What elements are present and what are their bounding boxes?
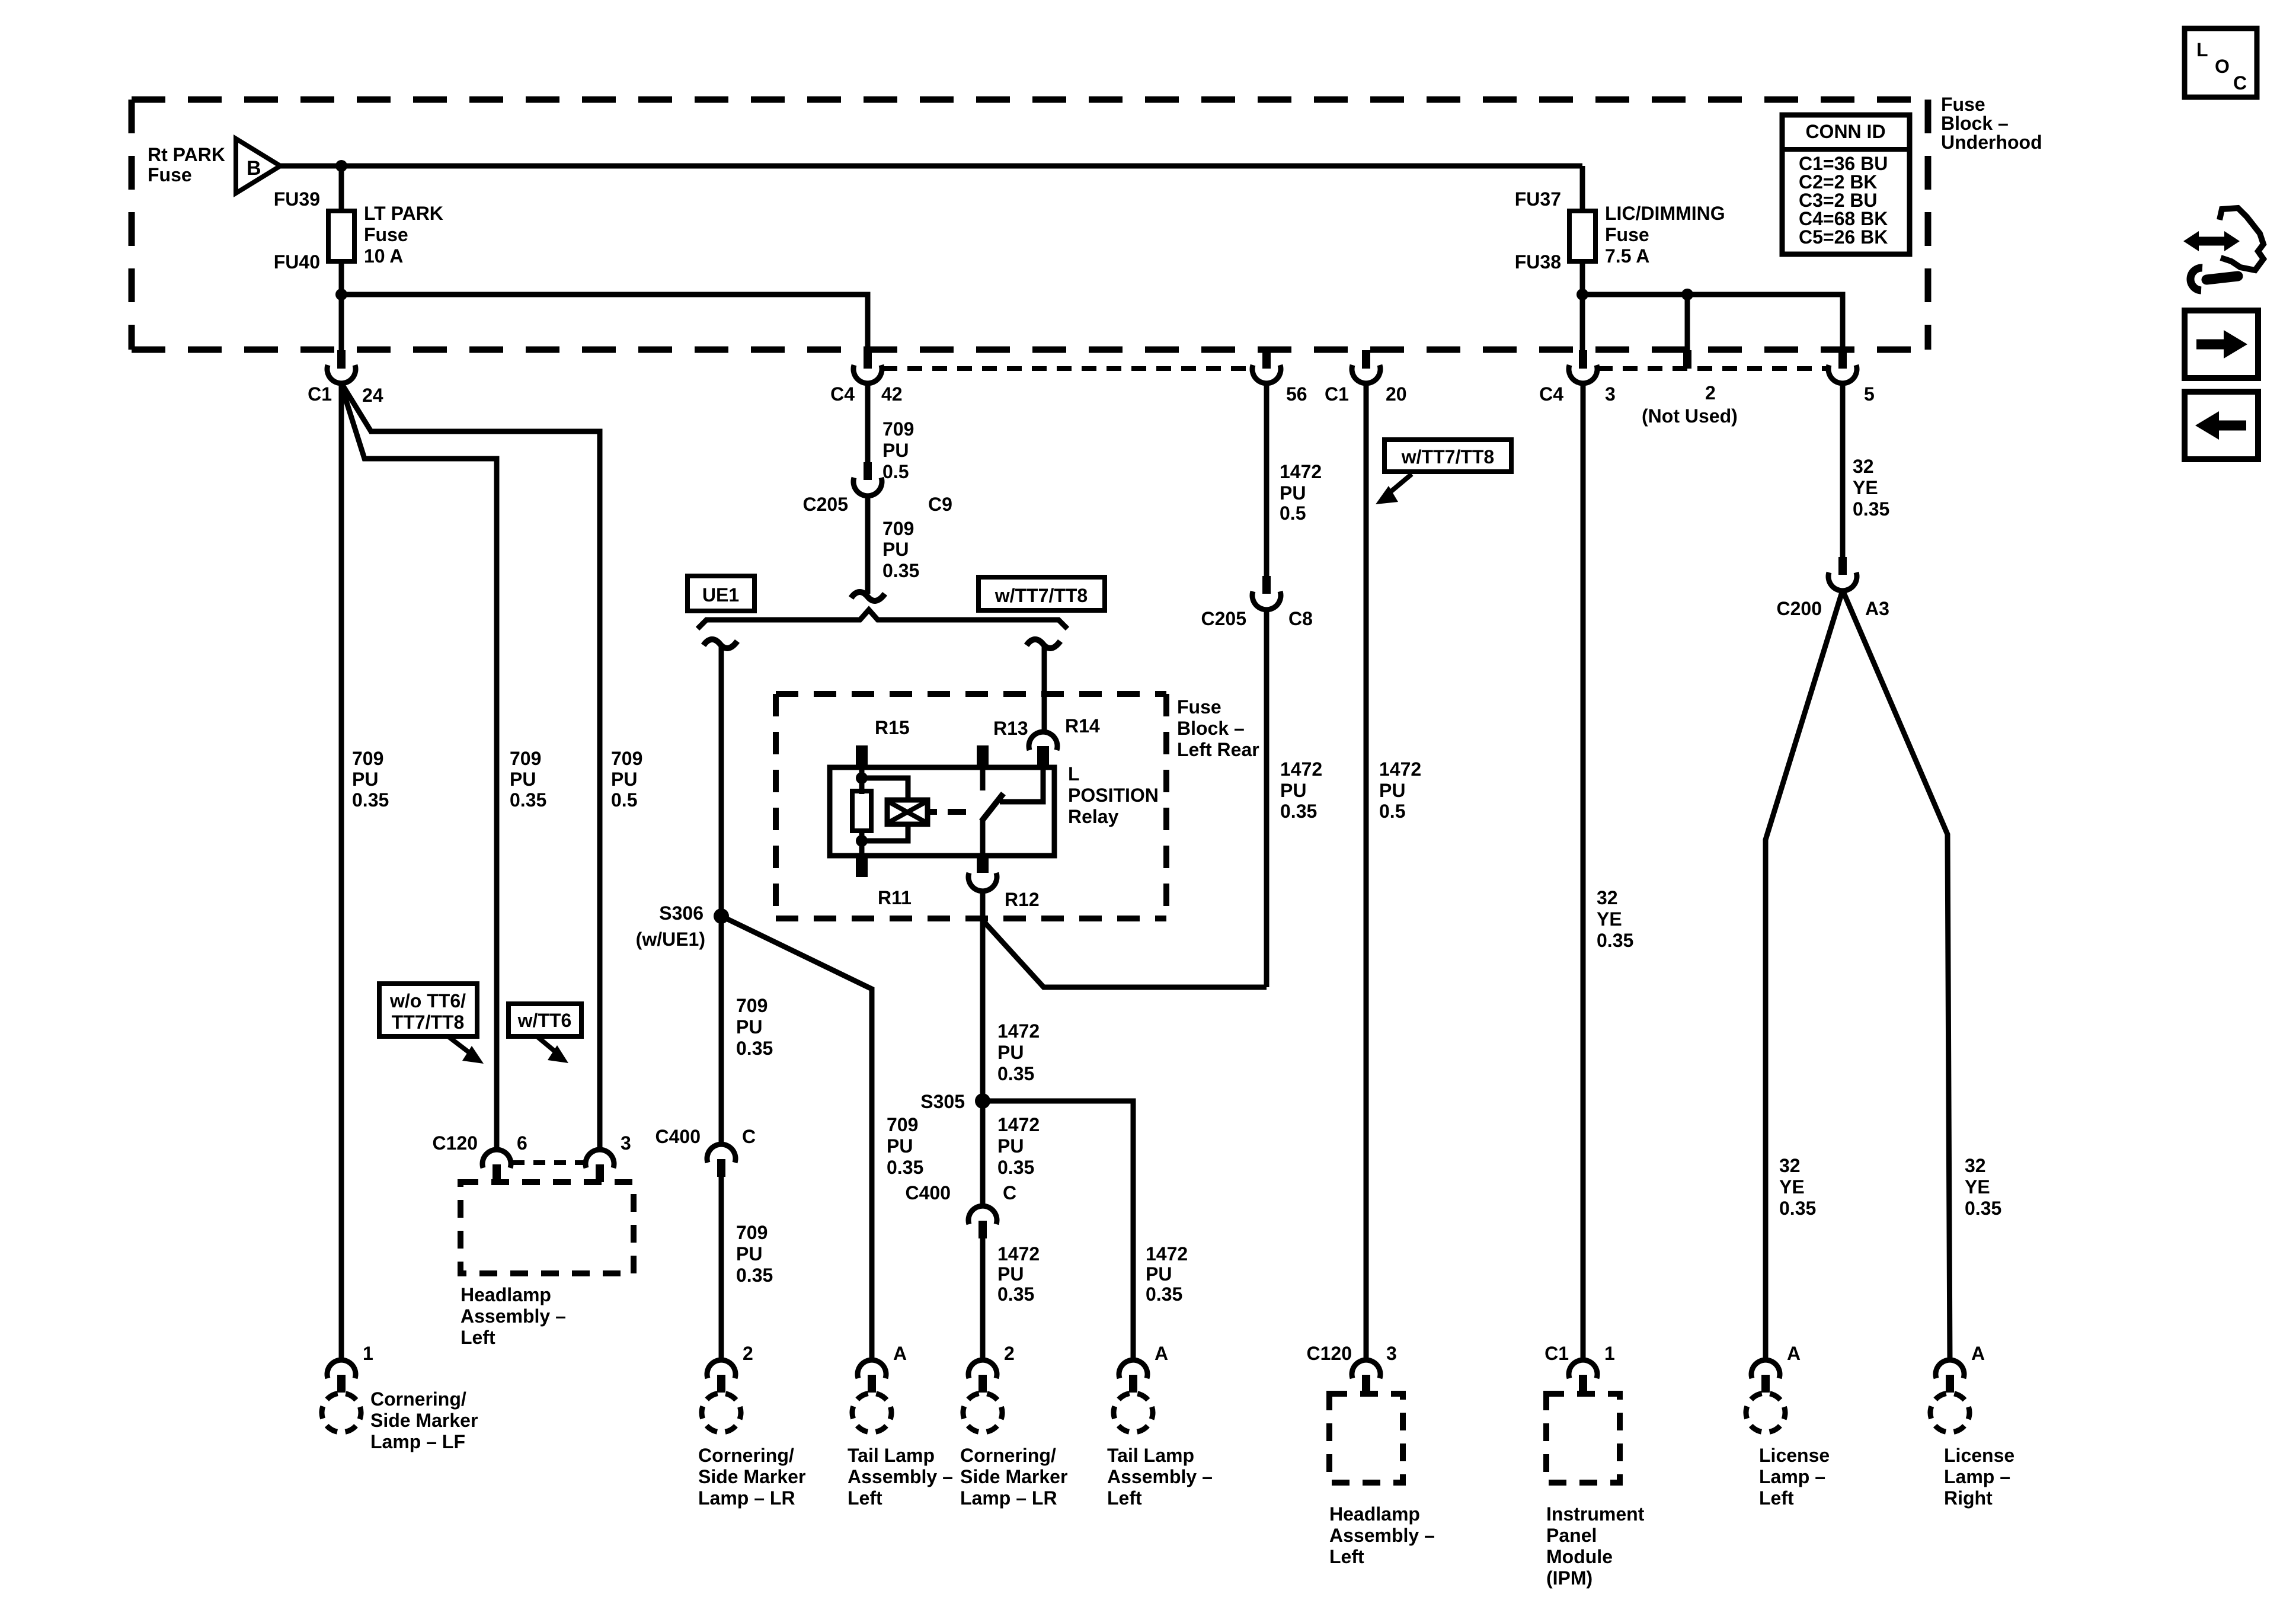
svg-text:2: 2 <box>1004 1343 1015 1364</box>
wire label 709 PU 0.5 (pin42) <box>882 418 914 482</box>
svg-text:7.5 A: 7.5 A <box>1605 245 1649 267</box>
relay body L POSITION Relay <box>830 767 1054 856</box>
svg-text:(IPM): (IPM) <box>1546 1567 1593 1589</box>
svg-text:32: 32 <box>1597 887 1618 908</box>
svg-text:A: A <box>893 1343 907 1364</box>
option box w/o TT6/TT7/TT8 <box>379 984 477 1036</box>
svg-text:Module: Module <box>1546 1546 1613 1567</box>
relay coil loop wires <box>862 778 908 801</box>
svg-text:O: O <box>2215 56 2230 77</box>
arrow from w/TT6 box <box>537 1036 568 1063</box>
svg-text:0.35: 0.35 <box>352 789 389 811</box>
svg-text:C205: C205 <box>1201 608 1247 629</box>
option box UE1 <box>687 576 754 611</box>
svg-text:Left: Left <box>1107 1487 1142 1509</box>
connector C4 pin 5 <box>1828 350 1857 383</box>
svg-text:709: 709 <box>882 418 914 440</box>
svg-text:S305: S305 <box>920 1091 965 1112</box>
svg-text:R14: R14 <box>1065 715 1100 737</box>
svg-text:Rt PARK: Rt PARK <box>148 144 225 165</box>
label C205 C8 <box>1201 608 1313 629</box>
svg-text:56: 56 <box>1286 383 1307 405</box>
svg-text:709: 709 <box>611 748 642 769</box>
connector pin 2 Cornering LR front <box>707 1360 736 1393</box>
connector C205 C9 <box>853 462 882 496</box>
lamp circle Cornering LR rear <box>955 1385 1010 1440</box>
svg-text:3: 3 <box>1386 1343 1397 1364</box>
svg-text:w/TT6: w/TT6 <box>517 1010 572 1031</box>
svg-text:Left: Left <box>1329 1546 1364 1567</box>
relay coil junction bottom <box>856 835 868 847</box>
svg-text:R11: R11 <box>878 887 912 908</box>
connector C120 pin 6 <box>482 1150 511 1182</box>
connector C120 pin 3 <box>586 1150 614 1182</box>
svg-text:Cornering/: Cornering/ <box>698 1445 794 1466</box>
svg-text:Left Rear: Left Rear <box>1177 739 1259 760</box>
connector pin A License Right <box>1936 1360 1964 1393</box>
svg-text:FU39: FU39 <box>274 188 320 210</box>
label C4 3 <box>1539 383 1616 405</box>
svg-text:(Not Used): (Not Used) <box>1642 405 1738 427</box>
wire C9 down to break <box>865 496 871 594</box>
svg-text:Side Marker: Side Marker <box>370 1410 478 1431</box>
junction node pin2 branch <box>1681 289 1693 300</box>
svg-text:Cornering/: Cornering/ <box>370 1388 466 1410</box>
svg-text:A: A <box>1971 1343 1985 1364</box>
svg-text:UE1: UE1 <box>702 584 739 606</box>
svg-text:A: A <box>1787 1343 1801 1364</box>
svg-text:Fuse: Fuse <box>1177 696 1221 718</box>
svg-text:0.5: 0.5 <box>882 461 909 482</box>
svg-text:Lamp – LR: Lamp – LR <box>698 1487 795 1509</box>
svg-text:PU: PU <box>736 1016 762 1038</box>
svg-text:PU: PU <box>997 1263 1024 1285</box>
relay resistor lower wire <box>859 831 865 856</box>
wire FU38 to pin 5 <box>1582 295 1843 350</box>
svg-text:0.5: 0.5 <box>1280 502 1306 524</box>
svg-text:PU: PU <box>352 769 378 790</box>
svg-text:LT PARK: LT PARK <box>364 203 443 224</box>
junction node FU38 <box>1576 289 1588 300</box>
svg-text:FU40: FU40 <box>274 251 320 273</box>
wire R12 branch to C8 wire <box>983 920 1267 987</box>
svg-text:1472: 1472 <box>997 1114 1040 1135</box>
svg-text:Lamp –: Lamp – <box>1759 1466 1825 1487</box>
svg-text:Headlamp: Headlamp <box>461 1284 551 1305</box>
relay pin R13 <box>977 745 989 767</box>
svg-text:C4: C4 <box>1539 383 1563 405</box>
svg-text:License: License <box>1944 1445 2014 1466</box>
svg-text:PU: PU <box>882 440 909 461</box>
svg-text:1472: 1472 <box>1379 758 1421 780</box>
svg-text:1: 1 <box>1604 1343 1615 1364</box>
wire bus down to FU37 <box>1580 166 1585 211</box>
wire label 1472 PU 0.35 (C8) <box>1280 758 1322 822</box>
svg-text:0.35: 0.35 <box>1779 1198 1816 1219</box>
wire label 709 PU 0.35 (C400-lamp LR) <box>736 1222 773 1286</box>
svg-text:Left: Left <box>1759 1487 1794 1509</box>
wire pin20 down to C120-3 <box>1364 383 1369 1361</box>
svg-text:Lamp – LF: Lamp – LF <box>370 1431 465 1452</box>
svg-text:0.5: 0.5 <box>611 789 637 811</box>
svg-text:C: C <box>1003 1182 1016 1204</box>
connector C400 C (rear) <box>968 1206 997 1238</box>
relay coil box <box>887 800 928 824</box>
svg-text:Instrument: Instrument <box>1546 1503 1645 1525</box>
label LIC/DIMMING Fuse 7.5A <box>1605 203 1725 267</box>
label Instrument Panel Module IPM <box>1546 1503 1645 1589</box>
svg-text:Fuse: Fuse <box>364 224 408 245</box>
label Fuse Block - Left Rear <box>1177 696 1259 760</box>
connector C4 pin 42 <box>853 350 882 383</box>
wire A3 split to license left <box>1766 590 1843 1361</box>
svg-text:0.35: 0.35 <box>1965 1198 2001 1219</box>
svg-text:w/o TT6/: w/o TT6/ <box>389 990 466 1012</box>
svg-text:C1: C1 <box>1325 383 1349 405</box>
wire pin3 down to IPM <box>1581 383 1586 1361</box>
label License Lamp Left <box>1759 1445 1830 1509</box>
svg-text:32: 32 <box>1779 1155 1801 1176</box>
svg-text:C1: C1 <box>308 383 332 405</box>
connector pin 2 not used <box>1683 350 1691 369</box>
service icon arrows and wrench <box>2183 208 2263 290</box>
wire triangle B to FU37 <box>280 164 1582 169</box>
svg-text:Tail Lamp: Tail Lamp <box>1107 1445 1194 1466</box>
wire pin56 to C205-C8 <box>1264 383 1269 576</box>
svg-text:C: C <box>742 1126 756 1147</box>
svg-text:L: L <box>2196 39 2208 60</box>
connector pin 2 Cornering LR rear <box>968 1360 997 1393</box>
wire fuse FU40 down <box>339 261 344 350</box>
svg-text:Left: Left <box>461 1327 495 1348</box>
svg-text:C400: C400 <box>655 1126 701 1147</box>
svg-text:Panel: Panel <box>1546 1525 1597 1546</box>
connector C1 pin 1 bottom <box>1569 1360 1597 1393</box>
svg-text:42: 42 <box>881 383 903 405</box>
svg-text:Fuse: Fuse <box>148 164 192 185</box>
svg-text:0.35: 0.35 <box>1146 1283 1182 1305</box>
svg-text:C8: C8 <box>1288 608 1313 629</box>
wire label 709 PU 0.35 (pin6) <box>510 748 546 811</box>
label Cornering Side Marker Lamp LF <box>370 1388 478 1452</box>
svg-text:6: 6 <box>517 1132 527 1154</box>
wire label 709 PU 0.5 (pin3) <box>611 748 642 811</box>
fuse block underhood dashed enclosure <box>132 100 1928 350</box>
svg-text:R13: R13 <box>993 718 1028 739</box>
svg-text:2: 2 <box>1705 382 1716 404</box>
relay switch R14 link <box>1000 767 1043 802</box>
relay pin R12 with connector <box>968 856 997 891</box>
wire to pin 2 not used <box>1685 295 1690 350</box>
svg-text:24: 24 <box>362 385 383 406</box>
svg-text:w/TT7/TT8: w/TT7/TT8 <box>1401 446 1494 468</box>
relay coil feed wire <box>859 767 865 794</box>
svg-text:LIC/DIMMING: LIC/DIMMING <box>1605 203 1725 224</box>
svg-text:A3: A3 <box>1865 598 1889 619</box>
svg-text:Fuse: Fuse <box>1605 224 1649 245</box>
svg-text:C205: C205 <box>803 494 849 515</box>
svg-text:Lamp – LR: Lamp – LR <box>960 1487 1057 1509</box>
svg-text:709: 709 <box>882 518 914 539</box>
label Tail Lamp Assembly Left (1) <box>848 1445 953 1509</box>
svg-text:10 A: 10 A <box>364 245 403 267</box>
svg-text:R15: R15 <box>875 717 910 738</box>
svg-text:CONN ID: CONN ID <box>1805 121 1885 142</box>
svg-text:Underhood: Underhood <box>1941 132 2042 153</box>
wire label 1472 PU 0.35 (S305-C400) <box>997 1114 1040 1178</box>
svg-text:0.35: 0.35 <box>1280 801 1317 822</box>
svg-text:709: 709 <box>736 1222 768 1243</box>
LOC icon box <box>2185 28 2257 97</box>
wire fanout to pin3 branch <box>343 385 600 1150</box>
svg-text:YE: YE <box>1853 477 1878 498</box>
svg-text:5: 5 <box>1864 383 1875 405</box>
svg-text:1: 1 <box>363 1343 373 1364</box>
svg-text:S306: S306 <box>659 902 703 924</box>
relay pin R11 <box>856 856 868 877</box>
svg-text:Relay: Relay <box>1068 806 1119 827</box>
brace option split <box>698 610 1067 629</box>
svg-text:Right: Right <box>1944 1487 1993 1509</box>
svg-text:Tail Lamp: Tail Lamp <box>848 1445 935 1466</box>
relay switch to R12 <box>980 820 986 856</box>
label License Lamp Right <box>1944 1445 2014 1509</box>
connector C120 pin 3 bottom <box>1352 1360 1380 1393</box>
svg-text:0.35: 0.35 <box>736 1038 773 1059</box>
label C200 A3 <box>1777 598 1889 619</box>
label C1 24 <box>308 383 383 406</box>
svg-text:1472: 1472 <box>1146 1243 1188 1265</box>
icon box arrow right <box>2185 311 2258 378</box>
connector C200 A3 <box>1828 557 1857 591</box>
label Rt PARK Fuse <box>148 144 225 185</box>
wire C400 front to lamp <box>719 1177 724 1361</box>
label Fuse Block - Underhood <box>1941 94 2042 153</box>
svg-text:Assembly –: Assembly – <box>848 1466 953 1487</box>
svg-text:POSITION: POSITION <box>1068 785 1159 806</box>
wire label 709 PU 0.35 (S306-C400) <box>736 995 773 1059</box>
option box w/TT7/TT8 pointer <box>1384 440 1511 472</box>
dashed link C120 row <box>513 1160 584 1165</box>
svg-text:3: 3 <box>621 1132 631 1154</box>
svg-text:0.5: 0.5 <box>1379 801 1405 822</box>
connector row dashed line <box>882 366 1828 371</box>
lamp circle License Left <box>1738 1385 1793 1440</box>
svg-text:0.35: 0.35 <box>510 789 546 811</box>
svg-text:PU: PU <box>997 1042 1024 1063</box>
wire pin24 down to lamp LF <box>339 383 344 1361</box>
wire R12 down to S305 <box>980 890 986 1206</box>
svg-text:Headlamp: Headlamp <box>1329 1503 1420 1525</box>
wire pin42 to C205-C9 <box>865 383 871 462</box>
wire S306 diagonal to tail lamp 1 <box>721 916 872 1361</box>
connector C1 pin 20 <box>1352 350 1380 383</box>
svg-text:R12: R12 <box>1005 889 1040 910</box>
svg-text:License: License <box>1759 1445 1830 1466</box>
svg-text:20: 20 <box>1386 383 1407 405</box>
wire label 709 PU 0.35 (tail lamp 1) <box>887 1114 923 1178</box>
svg-text:Block –: Block – <box>1177 718 1245 739</box>
svg-text:Fuse: Fuse <box>1941 94 1985 115</box>
wire label 1472 PU 0.35 (R12-S305) <box>997 1020 1040 1084</box>
wire label 32 YE 0.35 (pin5) <box>1853 456 1889 520</box>
svg-text:PU: PU <box>736 1243 762 1265</box>
svg-text:PU: PU <box>510 769 536 790</box>
svg-text:Assembly –: Assembly – <box>1107 1466 1213 1487</box>
svg-text:0.35: 0.35 <box>736 1265 773 1286</box>
wire label 1472 PU 0.35 (C400-lamp) <box>997 1243 1040 1305</box>
wire S305 branch to tail lamp 2 <box>983 1101 1133 1361</box>
svg-text:1472: 1472 <box>997 1020 1040 1042</box>
wire A3 split to license right <box>1843 590 1950 1361</box>
svg-text:C: C <box>2233 72 2247 94</box>
connector C1 pin 56 <box>1252 350 1281 383</box>
svg-text:C4: C4 <box>830 383 855 405</box>
svg-text:Block –: Block – <box>1941 113 2009 134</box>
label C205 C9 <box>803 494 952 515</box>
svg-text:C9: C9 <box>928 494 952 515</box>
label C400 C (front) <box>655 1126 756 1147</box>
headlamp assembly left dashed box <box>461 1182 634 1273</box>
wire label 32 YE 0.35 (license left) <box>1779 1155 1816 1219</box>
wire UE1 branch down to S306 <box>719 645 724 1145</box>
label Headlamp Assembly Left <box>461 1284 566 1348</box>
svg-text:C400: C400 <box>906 1182 951 1204</box>
wire label 32 YE 0.35 (license right) <box>1965 1155 2001 1219</box>
relay connector R14 <box>1029 732 1057 767</box>
option box w/TT7/TT8 over brace <box>978 577 1105 610</box>
wire label 1472 PU 0.5 (pin20) <box>1379 758 1421 822</box>
svg-text:FU38: FU38 <box>1515 251 1561 273</box>
connector C205 C8 <box>1252 576 1281 610</box>
svg-text:C5=26 BK: C5=26 BK <box>1799 226 1888 248</box>
svg-text:1472: 1472 <box>1280 758 1322 780</box>
svg-text:0.35: 0.35 <box>1597 930 1633 951</box>
connector C4 pin 3 <box>1569 350 1597 383</box>
lamp circle Cornering LR front <box>693 1385 749 1440</box>
svg-text:32: 32 <box>1853 456 1874 477</box>
break squiggle above brace <box>851 592 885 601</box>
svg-text:C120: C120 <box>433 1132 478 1154</box>
headlamp assembly left dashed box bottom <box>1329 1394 1403 1483</box>
svg-text:709: 709 <box>510 748 541 769</box>
svg-text:YE: YE <box>1597 908 1622 930</box>
svg-text:C1: C1 <box>1544 1343 1569 1364</box>
lamp circle Tail Lamp 1 <box>844 1385 899 1440</box>
relay resistor <box>852 791 871 831</box>
svg-text:0.35: 0.35 <box>887 1157 923 1178</box>
connector pin 1 Cornering LF <box>327 1360 356 1393</box>
fuse LT PARK 10A <box>328 211 354 261</box>
svg-text:PU: PU <box>1280 780 1306 801</box>
svg-text:PU: PU <box>611 769 637 790</box>
svg-text:YE: YE <box>1779 1176 1805 1198</box>
option box w/TT6 <box>509 1004 581 1036</box>
feed triangle B (Rt PARK Fuse) <box>236 139 280 193</box>
lamp circle License Right <box>1922 1385 1977 1440</box>
label Tail Lamp Assembly Left (2) <box>1107 1445 1213 1509</box>
junction node FU39 <box>335 160 347 172</box>
wire label 709 PU 0.35 (pin24) <box>352 748 389 811</box>
lamp circle Tail Lamp 2 <box>1105 1385 1160 1440</box>
label Cornering Side Marker Lamp LR (1) <box>698 1445 805 1509</box>
splice S306 <box>714 908 729 924</box>
svg-text:FU37: FU37 <box>1515 188 1561 210</box>
svg-text:Side Marker: Side Marker <box>960 1466 1067 1487</box>
break squiggle TT7 branch <box>1027 639 1060 648</box>
label 56 C1 20 <box>1286 383 1407 405</box>
svg-text:0.35: 0.35 <box>997 1283 1034 1305</box>
svg-text:PU: PU <box>997 1135 1024 1157</box>
svg-text:Lamp –: Lamp – <box>1944 1466 2010 1487</box>
label Cornering Side Marker Lamp LR (2) <box>960 1445 1067 1509</box>
label C4 42 <box>830 383 903 405</box>
svg-text:(w/UE1): (w/UE1) <box>636 929 705 950</box>
svg-text:709: 709 <box>887 1114 918 1135</box>
connector pin A Tail Lamp 2 <box>1119 1360 1147 1393</box>
label 2 (Not Used) <box>1642 382 1738 427</box>
wire C8 down to R12 branch <box>1264 609 1269 987</box>
lamp circle Cornering LF <box>314 1385 369 1440</box>
svg-text:PU: PU <box>1379 780 1405 801</box>
wire FU38 down <box>1580 261 1585 350</box>
svg-text:709: 709 <box>352 748 383 769</box>
svg-text:w/TT7/TT8: w/TT7/TT8 <box>994 585 1088 606</box>
relay coil link dashes <box>928 809 966 815</box>
svg-text:TT7/TT8: TT7/TT8 <box>392 1012 465 1033</box>
svg-text:32: 32 <box>1965 1155 1986 1176</box>
splice S305 <box>975 1093 990 1109</box>
svg-text:Cornering/: Cornering/ <box>960 1445 1056 1466</box>
svg-text:0.35: 0.35 <box>1853 498 1889 520</box>
svg-text:B: B <box>247 157 261 180</box>
wire label 709 PU 0.35 (C9) <box>882 518 919 581</box>
label C120 6 3 <box>433 1132 631 1154</box>
wire C400 rear to lamp <box>980 1238 986 1361</box>
arrow from w/o TT6 box <box>448 1036 484 1064</box>
svg-text:PU: PU <box>1146 1263 1172 1285</box>
svg-text:PU: PU <box>1280 482 1306 504</box>
connector pin A Tail Lamp 1 <box>858 1360 886 1393</box>
svg-text:0.35: 0.35 <box>882 560 919 581</box>
svg-text:2: 2 <box>743 1343 753 1364</box>
wire label 1472 PU 0.35 (tail lamp 2) <box>1146 1243 1188 1305</box>
instrument panel module dashed box <box>1546 1394 1620 1483</box>
svg-text:PU: PU <box>882 539 909 560</box>
svg-text:0.35: 0.35 <box>997 1157 1034 1178</box>
svg-text:YE: YE <box>1965 1176 1990 1198</box>
svg-text:1472: 1472 <box>1280 461 1322 482</box>
label L POSITION Relay <box>1068 763 1159 827</box>
svg-text:709: 709 <box>736 995 768 1016</box>
wire label 1472 PU 0.5 (pin56) <box>1280 461 1322 524</box>
label Headlamp Assembly Left bottom <box>1329 1503 1435 1567</box>
relay pin R15 <box>856 745 868 767</box>
wire TT7 branch down to R14 <box>1042 645 1047 731</box>
label LT PARK Fuse 10A <box>364 203 443 267</box>
relay switch blade <box>981 793 1003 821</box>
wire label 32 YE 0.35 (pin3) <box>1597 887 1633 951</box>
connector C400 C (front) <box>707 1144 736 1177</box>
relay switch fixed contact <box>980 767 986 790</box>
wire FU40 to C4 pin 42 <box>341 295 868 350</box>
svg-text:1472: 1472 <box>997 1243 1040 1265</box>
arrow from w/TT7/TT8 box <box>1376 474 1412 504</box>
svg-text:3: 3 <box>1605 383 1616 405</box>
fuse block left rear dashed enclosure <box>776 694 1166 918</box>
connector pin A License Left <box>1751 1360 1780 1393</box>
svg-text:Assembly –: Assembly – <box>461 1305 566 1327</box>
